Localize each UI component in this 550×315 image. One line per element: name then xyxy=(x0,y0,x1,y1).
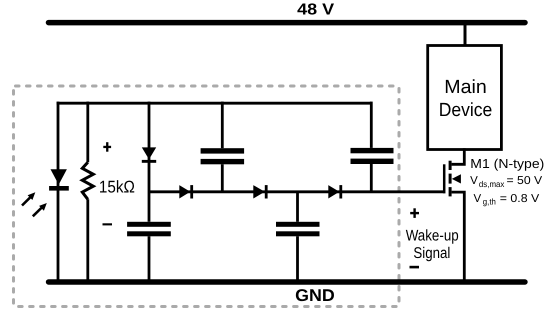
wire: 48V to Main Device xyxy=(464,23,467,46)
photodiode D_photo xyxy=(49,169,69,190)
resistor R1 15k zigzag xyxy=(82,162,93,199)
Main Device box U1 xyxy=(428,46,502,150)
wire: inner top rail xyxy=(57,102,372,105)
diode D1 (down) xyxy=(142,147,156,162)
svg-text:M1 (N-type): M1 (N-type) xyxy=(470,156,544,171)
Vg,th = 0.8 V label xyxy=(474,193,540,207)
svg-text:Main: Main xyxy=(444,77,487,98)
plus label (resistor) xyxy=(103,142,111,152)
diode D2 (series, right) xyxy=(179,185,193,198)
diode D4 (series, right) xyxy=(328,185,342,198)
capacitor C4 (upper right) xyxy=(351,148,394,164)
Vds,max = 50 V label xyxy=(470,175,542,189)
svg-text:48 V: 48 V xyxy=(297,2,334,19)
capacitor C1 (lower left) xyxy=(127,222,171,237)
channel dash source xyxy=(449,187,452,196)
svg-text:V: V xyxy=(474,193,482,205)
light arrow 1 xyxy=(22,192,35,205)
svg-text:15kΩ: 15kΩ xyxy=(99,178,135,197)
GND rail xyxy=(49,279,526,284)
drain lead to Main Device xyxy=(452,148,465,164)
minus label (wake-up) xyxy=(410,266,420,269)
gate plate xyxy=(443,164,446,193)
dashed enclosure box xyxy=(14,86,400,307)
wire: resistor branch top xyxy=(86,102,89,163)
svg-text:g,th: g,th xyxy=(483,197,496,207)
wire: below C1 to GND xyxy=(148,236,151,281)
48V rail xyxy=(49,20,526,26)
channel dash body xyxy=(449,174,452,184)
capacitor C3 (lower right) xyxy=(276,222,320,237)
wire: middle rail (to MOSFET gate) xyxy=(149,190,443,193)
wire: resistor branch bottom xyxy=(86,199,89,281)
body arrow xyxy=(452,174,461,183)
MOSFET M1 xyxy=(444,148,464,282)
wire: below C2 to middle rail xyxy=(221,164,224,192)
wire: diode/C1 branch xyxy=(148,102,151,222)
svg-text:ds,max: ds,max xyxy=(479,179,505,189)
capacitor C2 (upper) xyxy=(201,148,245,164)
wire: photodiode branch xyxy=(57,102,60,282)
wire: pump cap branch 1 (top) xyxy=(221,102,224,149)
minus label (resistor) xyxy=(103,223,113,225)
diode D3 (series, right) xyxy=(253,185,267,198)
source lead to GND xyxy=(452,192,465,282)
svg-text:GND: GND xyxy=(295,286,335,305)
svg-text:= 50 V: = 50 V xyxy=(507,175,543,187)
light arrow 2 xyxy=(33,203,47,216)
wire: below C3 to GND xyxy=(296,236,299,281)
channel dash drain xyxy=(449,161,452,170)
plus label (wake-up) xyxy=(410,208,419,218)
svg-text:Signal: Signal xyxy=(413,245,450,262)
svg-text:Wake-up: Wake-up xyxy=(406,228,459,245)
svg-text:Device: Device xyxy=(439,100,493,121)
wire: pump cap branch 2 (lower) xyxy=(296,192,299,222)
svg-text:V: V xyxy=(470,175,478,187)
wire: below C4 to middle rail xyxy=(370,164,373,192)
wire: pump cap branch 3 (upper right) xyxy=(370,102,373,148)
svg-text:= 0.8 V: = 0.8 V xyxy=(500,193,540,205)
